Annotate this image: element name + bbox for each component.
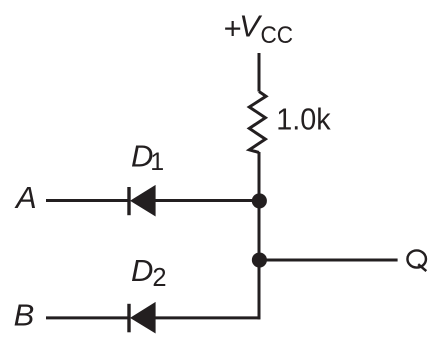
wire B to diode D2 (46, 316, 128, 319)
label +VCC supply (224, 9, 294, 50)
svg-text:B: B (14, 298, 35, 333)
svg-text:1: 1 (150, 148, 164, 176)
diode D2 cathode bar (127, 304, 130, 333)
label Q output ring (407, 250, 426, 267)
svg-text:D: D (131, 253, 153, 288)
resistor R 1.0k (249, 92, 266, 153)
svg-text:V: V (239, 9, 263, 44)
wire resistor to node junctions and down to B branch corner (258, 152, 261, 319)
svg-text:2: 2 (152, 264, 166, 292)
diode D1 triangle (130, 185, 156, 217)
wire node 2 to output Q (259, 259, 397, 262)
svg-text:1.0k: 1.0k (276, 103, 331, 137)
wire D2 to vertical branch (155, 316, 260, 319)
diode D1 cathode bar (127, 187, 130, 215)
diode D2 triangle (130, 302, 156, 334)
wire D1 to node 1 (155, 199, 259, 202)
label D2 (131, 253, 167, 292)
wire from +VCC to resistor (258, 53, 261, 92)
node junction dot 2 (252, 252, 267, 267)
svg-text:A: A (14, 180, 37, 215)
wire A to diode D1 (46, 199, 128, 202)
label D1 (131, 138, 164, 175)
svg-text:CC: CC (261, 22, 294, 49)
node junction dot 1 (252, 193, 267, 208)
label Q output tail (418, 264, 426, 271)
